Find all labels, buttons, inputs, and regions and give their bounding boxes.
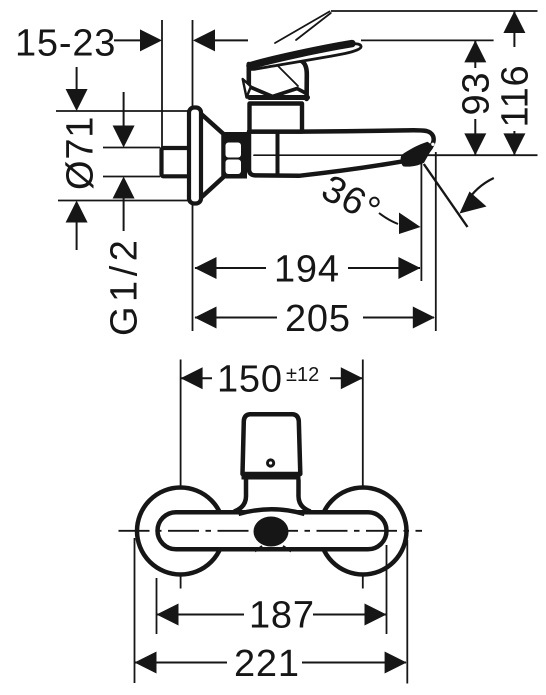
connector white square 2 [226,160,242,175]
handle ghost line 1 [275,12,330,44]
flange circle left [137,488,224,575]
extension line right 15-23 / 194 / 205 (x=192.5) [192,20,194,331]
extension line right 194 (x=421.4) [420,163,422,281]
leader 36 deg [379,213,398,224]
svg-text:93: 93 [456,72,498,116]
flange circle right [320,488,407,575]
aerator white notch [431,143,434,146]
handle top view [243,414,301,474]
arrow 150 right [341,367,363,389]
svg-text:116: 116 [495,65,537,128]
connector white square 1 [226,143,242,158]
aerator [401,142,434,167]
handle ghost line 2 [296,13,331,40]
svg-text:221: 221 [234,643,300,685]
escutcheon wall bar [189,108,201,204]
dimension line 194 [195,267,266,269]
dimension line O71 top [76,67,78,92]
dimension line 187 [157,614,244,616]
dimension line 205 [195,317,277,319]
cap left edge [247,64,252,88]
extension line 150 left / center line (x=180.6) [180,360,182,589]
tick left [255,546,262,552]
extension line 187 left (x=156.5) [156,578,158,634]
arrow 36 leader [399,213,421,235]
cap base band [250,95,308,100]
cap crease [273,61,299,87]
dimension line 116 [513,11,515,47]
tick right [283,546,291,552]
arrow 116 down [503,133,525,155]
extension line left 15-23 (x=162) [161,20,163,148]
extension line 187 right (x=386.5) [386,545,388,634]
svg-text:187: 187 [249,595,315,637]
arrow 194 right [398,257,420,279]
aerator ellipse [254,517,289,547]
arrow 205 left [195,307,217,329]
dimension line 150 [181,377,212,379]
lever blade top band [250,44,352,66]
handle dot [266,458,275,467]
arrow 116 up [503,11,525,33]
arrow O71 up [66,201,88,223]
nipple G1/2 [162,148,190,176]
extension line top of escutcheon (y=111) [56,110,190,112]
handle divider [242,475,301,480]
extension line 150 right / center line (x=362.8) [362,360,364,589]
svg-text:±12: ±12 [286,364,319,386]
dimension line G1/2 top [123,92,125,128]
svg-text:205: 205 [285,298,351,340]
collar [250,104,303,132]
body divider line [276,132,280,175]
arrow O71 down [66,89,88,111]
dimension line 221 [135,662,227,664]
arrow 15-23 right [193,29,215,51]
dimension line 93 [474,40,476,68]
arrow 150 left [181,367,203,389]
extension line right 205 (x=435.8) [435,152,437,331]
black connector block [222,132,247,179]
arrow 15-23 left [140,29,162,51]
body and spout [249,130,434,176]
water stream line 36 deg [424,164,468,227]
arrow 187 right [365,604,387,626]
dimension line G1/2 bottom [123,196,125,231]
extension line spout bottom (y=155.4) [408,154,538,156]
arrow 221 right [385,652,407,674]
extension line nipple bottom (y=176.5) [103,176,160,178]
dimension line 15-23 [114,39,141,41]
arrow 221 left [135,652,157,674]
body capsule [158,512,387,549]
svg-text:G1/2: G1/2 [104,236,146,336]
dimension line O71 bottom [76,220,78,250]
arrow G1/2 up [113,177,135,199]
extension line bottom of escutcheon (y=200.5) [58,200,190,202]
escutcheon cone [199,112,224,200]
arrow 93 down [464,133,486,155]
arrow 194 left [195,257,217,279]
svg-text:Ø71: Ø71 [60,116,102,190]
angle arc arrow [466,178,494,203]
handle collar [234,480,311,512]
svg-text:15-23: 15-23 [15,22,116,64]
lever front wedge [243,79,251,98]
svg-text:150: 150 [217,359,283,401]
center chain line [119,530,423,532]
arrow 205 right [413,307,435,329]
spout centerline [254,154,420,156]
arrow 187 left [157,604,179,626]
svg-text:194: 194 [274,249,340,291]
extension line lever (y=40.4) [361,39,494,41]
handle cap fill [249,52,308,98]
lever blade [249,44,361,70]
neck right edge [301,61,307,100]
extension line 221 left (x=134.5) [134,538,136,683]
cap bottom V edge [249,87,306,97]
arrow G1/2 down [113,126,135,148]
extension line 221 right (x=407.3) [406,540,408,684]
capsule top bump [239,510,304,516]
extension line nipple top (y=147.5) [103,147,160,149]
extension line top (y=11) [331,10,538,12]
arrow 93 up [464,40,486,62]
